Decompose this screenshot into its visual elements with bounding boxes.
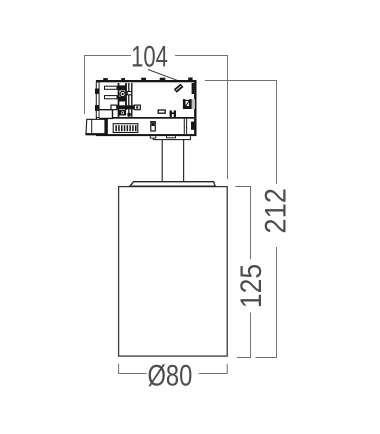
latch housing box [100, 110, 113, 119]
adapter left wall [95, 82, 99, 118]
right clip lower [191, 122, 195, 130]
dimension 212 lines [205, 81, 277, 358]
contact slot lower [105, 96, 120, 99]
trim ring [130, 182, 215, 187]
contact slot upper [105, 86, 120, 89]
adapter right wall [192, 81, 197, 136]
screw tilted [174, 84, 184, 93]
adapter top bar [96, 78, 197, 83]
dimension 104 text [131, 41, 168, 74]
dimension Ø80 lines [119, 364, 228, 374]
stem [162, 140, 183, 182]
dimension 104 lines [85, 56, 228, 180]
dimension Ø80 text [147, 360, 192, 393]
contact mechanism white box [127, 92, 132, 95]
contact mechanism rails [119, 83, 132, 117]
leader line [148, 70, 179, 81]
ribbed block [113, 124, 138, 133]
contact mechanism parts [118, 85, 131, 116]
screw detail lower [151, 122, 156, 131]
stem flange [150, 135, 190, 140]
dimension 212 text [259, 188, 292, 234]
adapter floor line [99, 117, 196, 119]
svg-text:125: 125 [235, 264, 268, 308]
adapter bottom edge [96, 134, 197, 136]
track adapter body outline [97, 81, 196, 135]
dimension 125 text [235, 264, 268, 308]
latch [86, 119, 108, 136]
bracket with screw [183, 99, 195, 109]
contact mechanism circles [120, 91, 125, 114]
svg-text:Ø80: Ø80 [147, 360, 192, 393]
svg-text:212: 212 [259, 188, 292, 234]
contact cross bar [111, 105, 140, 110]
svg-text:104: 104 [131, 41, 168, 74]
small slot right [158, 110, 165, 113]
cylinder body [119, 187, 228, 357]
connector h-block [170, 110, 176, 117]
dimension 125 lines [235, 187, 250, 358]
lower inner verticals [184, 119, 186, 134]
